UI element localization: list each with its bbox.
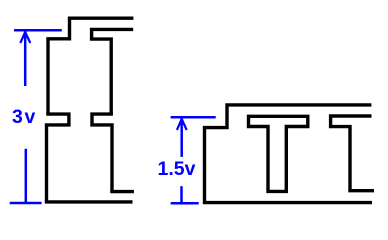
svg-text:3v: 3v [12,106,37,128]
svg-text:1.5v: 1.5v [158,158,196,180]
